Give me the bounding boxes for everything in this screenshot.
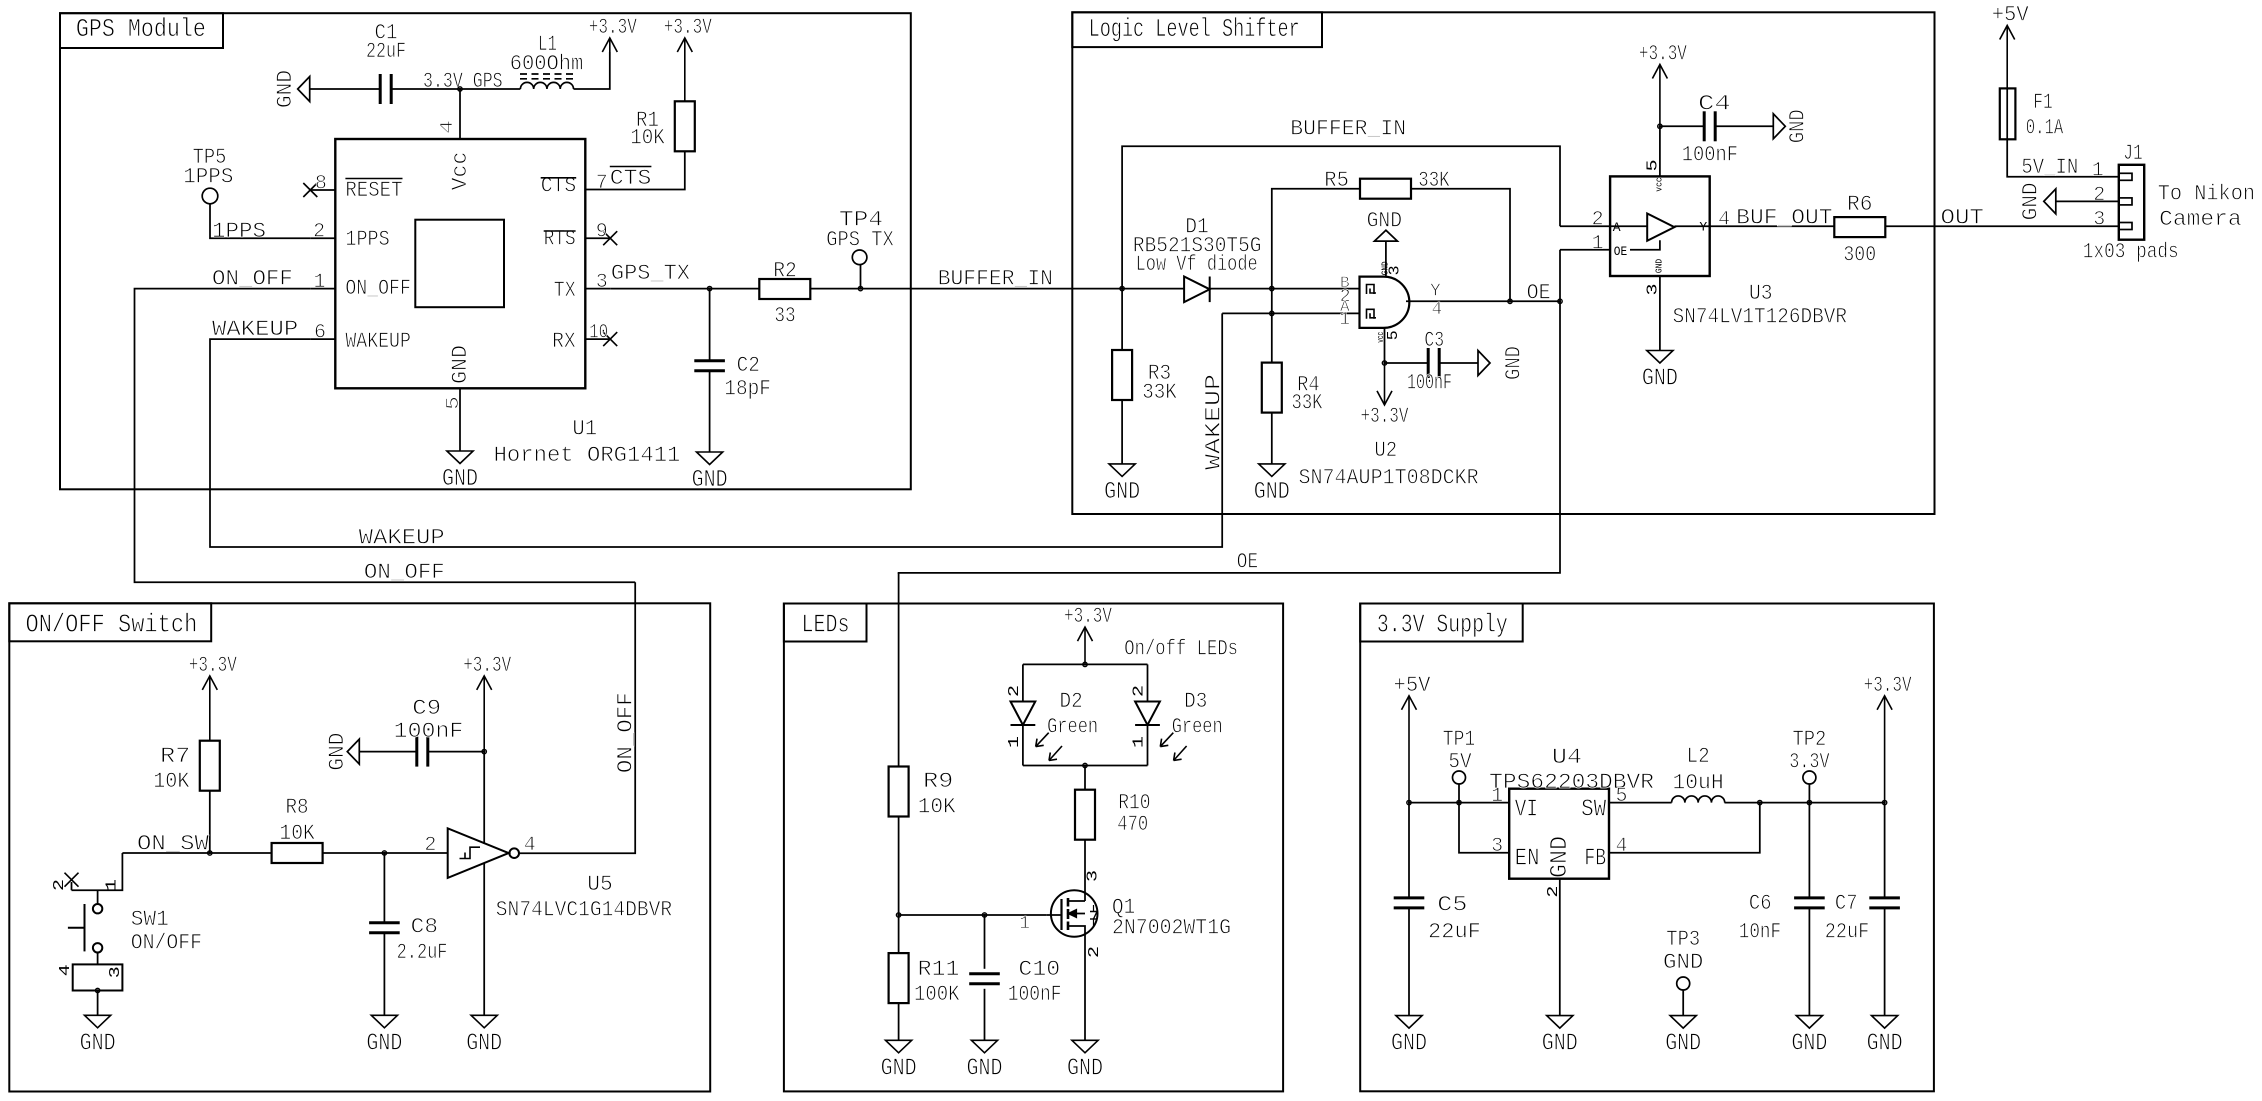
pin number 3 (J1) bbox=[2093, 209, 2105, 232]
svg-text:GND: GND bbox=[1502, 346, 1527, 380]
net label ON_OFF (pin1) bbox=[212, 267, 293, 292]
test point TP3 bbox=[1663, 927, 1703, 990]
capacitor C3 bbox=[1407, 328, 1452, 396]
pin 10 RX stub with no-connect bbox=[585, 322, 617, 347]
svg-text:R7: R7 bbox=[160, 744, 190, 769]
svg-text:600Ohm: 600Ohm bbox=[510, 52, 584, 77]
svg-text:2: 2 bbox=[51, 879, 68, 891]
U3 pin 5 VCC bbox=[1644, 126, 1661, 176]
wire ON_OFF from pin 1 bbox=[135, 289, 636, 583]
svg-text:LEDs: LEDs bbox=[802, 610, 850, 640]
wire TP4 stub bbox=[860, 265, 862, 289]
svg-text:GND: GND bbox=[967, 1055, 1003, 1082]
U2 pin label B bbox=[1340, 274, 1350, 292]
svg-text:To Nikon: To Nikon bbox=[2158, 181, 2255, 206]
wire U5 vcc bbox=[483, 752, 485, 844]
svg-text:SW1: SW1 bbox=[131, 907, 169, 932]
svg-text:GND: GND bbox=[1665, 1031, 1701, 1058]
pin 8 RESET stub with no-connect bbox=[303, 173, 335, 198]
J1 note Camera bbox=[2159, 207, 2241, 232]
ON/OFF Switch section box bbox=[9, 603, 710, 1091]
wire SW1 to ground bbox=[97, 991, 99, 1016]
wire C7 to ground bbox=[1884, 908, 1886, 1016]
U2 value SN74AUP1T08DCKR bbox=[1299, 466, 1479, 491]
U1 inner square bbox=[415, 220, 504, 308]
svg-text:F1: F1 bbox=[2033, 90, 2053, 115]
U4 value TPS62203DBVR bbox=[1489, 770, 1654, 795]
svg-text:C7: C7 bbox=[1835, 891, 1858, 916]
svg-text:WAKEUP: WAKEUP bbox=[345, 329, 411, 354]
junction C8 node bbox=[382, 851, 386, 855]
SW1 pin 1 number bbox=[103, 879, 120, 891]
svg-text:1: 1 bbox=[1006, 736, 1023, 748]
svg-text:GND: GND bbox=[1642, 366, 1678, 393]
pin number 2 (U3) bbox=[1592, 209, 1604, 232]
capacitor C9 bbox=[394, 696, 464, 767]
U3 internal Y line bbox=[1674, 225, 1709, 227]
pin 3 TX stub bbox=[585, 271, 610, 294]
IC U4 box bbox=[1509, 789, 1609, 879]
ground (C5) bbox=[1391, 1016, 1427, 1058]
ground (J1 pin 2, left) bbox=[2018, 182, 2056, 220]
wire R1 to CTS pin bbox=[586, 151, 685, 189]
svg-text:ON/OFF: ON/OFF bbox=[131, 931, 202, 956]
svg-text:BUFFER_IN: BUFFER_IN bbox=[938, 266, 1053, 291]
ON/OFF Switch title box bbox=[9, 603, 211, 641]
svg-text:C9: C9 bbox=[412, 696, 441, 721]
svg-text:5: 5 bbox=[444, 396, 464, 410]
svg-text:SN74LV1T126DBVR: SN74LV1T126DBVR bbox=[1673, 305, 1847, 330]
svg-text:1PPS: 1PPS bbox=[183, 165, 233, 190]
svg-text:33: 33 bbox=[774, 303, 795, 328]
ground (R3) bbox=[1104, 464, 1140, 506]
wire B input bbox=[1272, 288, 1360, 290]
svg-text:C5: C5 bbox=[1437, 893, 1467, 918]
wire C9 branch bbox=[429, 751, 485, 753]
svg-text:18pF: 18pF bbox=[724, 377, 771, 402]
wire C5 to ground bbox=[1408, 908, 1410, 1016]
svg-text:FB: FB bbox=[1584, 846, 1606, 873]
svg-text:GND: GND bbox=[1367, 209, 1402, 234]
svg-text:+5V: +5V bbox=[1992, 3, 2030, 28]
net label 5V_IN bbox=[2021, 155, 2078, 180]
junction C9 node bbox=[482, 749, 486, 753]
wire C1 to node 3.3V_GPS bbox=[391, 88, 460, 90]
wire C10 to ground bbox=[984, 989, 986, 1041]
J1 reference label bbox=[2123, 141, 2142, 166]
svg-text:1: 1 bbox=[103, 879, 120, 891]
svg-text:GND: GND bbox=[366, 1030, 402, 1057]
pin 2 1PPS stub bbox=[310, 221, 335, 244]
svg-text:TP2: TP2 bbox=[1792, 727, 1826, 752]
svg-text:100nF: 100nF bbox=[1407, 371, 1452, 396]
svg-text:3.3V: 3.3V bbox=[1789, 750, 1830, 775]
capacitor C7 bbox=[1825, 891, 1900, 945]
svg-text:2: 2 bbox=[1006, 685, 1023, 697]
resistor R7 bbox=[153, 741, 220, 794]
pin number 4 bbox=[438, 120, 458, 134]
IC U1 Hornet ORG1411 box bbox=[335, 139, 585, 388]
wire F1 to J1 pin1 bbox=[2007, 139, 2119, 177]
svg-text:22uF: 22uF bbox=[1428, 920, 1481, 945]
SW1 pin 2 no-connect bbox=[51, 873, 78, 891]
GPS Module section box bbox=[60, 13, 911, 489]
svg-text:Logic Level Shifter: Logic Level Shifter bbox=[1089, 14, 1300, 44]
ground (C7) bbox=[1867, 1016, 1903, 1058]
power +3.3V (supply out) bbox=[1864, 673, 1913, 803]
svg-text:GND: GND bbox=[1663, 950, 1703, 975]
svg-text:GND: GND bbox=[466, 1030, 502, 1057]
net label BUFFER_IN (top) bbox=[1290, 117, 1406, 142]
U3 pin label OE bbox=[1614, 244, 1628, 259]
wire OE into LEDs bbox=[898, 573, 900, 766]
svg-text:GND: GND bbox=[1104, 479, 1140, 506]
wire C2 drop bbox=[709, 289, 711, 361]
svg-text:GND: GND bbox=[80, 1030, 116, 1057]
wire SW1 pin1 riser bbox=[72, 853, 123, 890]
switch SW1 bbox=[68, 890, 202, 955]
svg-text:R5: R5 bbox=[1324, 168, 1349, 193]
svg-text:Y: Y bbox=[1699, 220, 1707, 235]
junction D1/R5 (B net) bbox=[1270, 286, 1274, 290]
net label ON_OFF (horizontal) bbox=[364, 560, 445, 585]
svg-text:4: 4 bbox=[1616, 835, 1628, 858]
U4 pin name SW bbox=[1581, 797, 1607, 824]
inductor L2 bbox=[1672, 744, 1725, 803]
test point TP2 bbox=[1789, 727, 1830, 784]
wire input rail bbox=[1409, 802, 1509, 804]
wire R9 to gate node bbox=[898, 817, 900, 916]
svg-text:0.1A: 0.1A bbox=[2026, 116, 2064, 141]
svg-text:10K: 10K bbox=[630, 126, 665, 151]
junction C2 node bbox=[707, 286, 711, 290]
ground (U2 pin 3, up) bbox=[1367, 209, 1402, 242]
svg-text:100nF: 100nF bbox=[394, 719, 464, 744]
wire BUFFER_IN to logic section bbox=[911, 288, 1122, 290]
U1 pin name RESET bbox=[345, 178, 402, 203]
svg-text:4: 4 bbox=[57, 964, 74, 976]
ground (C6) bbox=[1791, 1016, 1827, 1058]
wire TP1 stub bbox=[1458, 784, 1460, 803]
net label GPS_TX bbox=[611, 261, 690, 286]
svg-text:3: 3 bbox=[1387, 265, 1404, 275]
U3 reference label bbox=[1749, 281, 1773, 306]
power +3.3V (R1) bbox=[664, 15, 713, 101]
svg-text:3: 3 bbox=[107, 966, 124, 978]
net label OUT bbox=[1941, 206, 1984, 231]
ground (C8) bbox=[366, 1015, 402, 1057]
svg-text:BUFFER_IN: BUFFER_IN bbox=[1290, 117, 1406, 142]
wire C9 to ground bbox=[360, 751, 417, 753]
svg-text:2.2uF: 2.2uF bbox=[397, 940, 448, 965]
wire FB loop bbox=[1609, 803, 1760, 853]
svg-text:+5V: +5V bbox=[1394, 673, 1432, 698]
U1 pin name RX bbox=[552, 329, 576, 354]
wire SW to L2 bbox=[1609, 802, 1672, 804]
U5 pin number 2 bbox=[424, 834, 436, 857]
resistor R10 bbox=[1075, 790, 1151, 840]
svg-text:3: 3 bbox=[1491, 835, 1503, 858]
wire BUFFER_IN riser bbox=[1122, 146, 1560, 288]
wire Vcc pin 4 bbox=[459, 89, 461, 139]
capacitor C1 bbox=[366, 21, 406, 105]
pin number 4 (U4) bbox=[1616, 835, 1628, 858]
LEDs section box bbox=[784, 604, 1283, 1092]
svg-text:OE: OE bbox=[1614, 244, 1628, 259]
resistor R8 bbox=[272, 795, 323, 863]
svg-text:EN: EN bbox=[1515, 846, 1540, 873]
svg-text:GND: GND bbox=[442, 466, 478, 493]
U2 input mark A bbox=[1367, 309, 1377, 319]
ground (R4) bbox=[1254, 464, 1290, 506]
net label OE (horizontal) bbox=[1237, 550, 1258, 575]
svg-text:GND: GND bbox=[273, 70, 298, 108]
wire U3 pin2 stub bbox=[1560, 225, 1610, 227]
U4 pin name EN bbox=[1515, 846, 1540, 873]
svg-text:GND: GND bbox=[1547, 836, 1574, 878]
svg-text:GND: GND bbox=[325, 733, 350, 771]
3.3V Supply section box bbox=[1360, 604, 1934, 1092]
pin number 2 (J1) bbox=[2093, 184, 2105, 207]
svg-text:4: 4 bbox=[438, 120, 458, 134]
wire C10 drop bbox=[984, 915, 986, 969]
capacitor C8 bbox=[369, 915, 447, 966]
wire R11 drop bbox=[898, 915, 900, 953]
U2 reference label bbox=[1374, 438, 1397, 463]
SW1 lower contact stub bbox=[97, 953, 99, 965]
J1 pin pad 2 bbox=[2119, 198, 2132, 205]
svg-text:Camera: Camera bbox=[2159, 207, 2241, 232]
svg-text:GPS_TX: GPS_TX bbox=[611, 261, 690, 286]
U3 pin label GND bbox=[1655, 259, 1665, 274]
svg-text:TP1: TP1 bbox=[1443, 727, 1476, 752]
U1 pin name RTS bbox=[544, 227, 576, 252]
J1 pin pad 1 bbox=[2119, 173, 2132, 180]
svg-text:1x03 pads: 1x03 pads bbox=[2083, 240, 2179, 265]
power +3.3V (L1) bbox=[589, 15, 638, 52]
svg-text:2: 2 bbox=[424, 834, 436, 857]
capacitor C10 bbox=[969, 957, 1061, 1007]
svg-text:L2: L2 bbox=[1687, 744, 1710, 769]
svg-text:ON/OFF Switch: ON/OFF Switch bbox=[26, 610, 198, 640]
svg-text:D3: D3 bbox=[1184, 689, 1207, 714]
junction LED top bbox=[1083, 662, 1087, 666]
U2 pin 5 VCC bottom bbox=[1376, 328, 1402, 363]
svg-text:GND: GND bbox=[881, 1055, 917, 1082]
junction U2 VCC node bbox=[1382, 361, 1386, 365]
pin number 7 bbox=[596, 172, 608, 195]
junction C5 node bbox=[1407, 800, 1411, 804]
svg-text:RX: RX bbox=[552, 329, 576, 354]
pin number 4 (U3) bbox=[1718, 209, 1730, 232]
svg-text:+3.3V: +3.3V bbox=[589, 15, 638, 40]
wire gnd to C1 bbox=[310, 88, 381, 90]
ground (U1 pin 5) bbox=[442, 451, 478, 493]
net label OE (U2 output) bbox=[1527, 281, 1551, 306]
svg-text:2: 2 bbox=[1086, 946, 1103, 958]
svg-text:A: A bbox=[1613, 220, 1621, 235]
wire R7 to ON_SW node bbox=[209, 791, 211, 853]
svg-text:Y: Y bbox=[1430, 282, 1441, 302]
junction TP2/C6 bbox=[1807, 800, 1811, 804]
J1 pin pad 3 bbox=[2119, 223, 2132, 230]
U1 pin name Vcc bbox=[448, 152, 473, 191]
svg-text:OE: OE bbox=[1527, 281, 1551, 306]
diode D1 bbox=[1133, 215, 1262, 303]
svg-text:10K: 10K bbox=[153, 769, 190, 794]
svg-text:U4: U4 bbox=[1552, 745, 1582, 770]
resistor R4 bbox=[1262, 363, 1323, 416]
wire C7 drop bbox=[1884, 803, 1886, 898]
transistor Q1 bbox=[1019, 870, 1231, 958]
resistor R1 bbox=[630, 101, 695, 151]
LEDs title box bbox=[784, 604, 867, 642]
wire TX to R2 bbox=[610, 288, 759, 290]
GPS Module title box bbox=[60, 13, 223, 48]
svg-text:GND: GND bbox=[1254, 479, 1290, 506]
junction ON_SW bbox=[208, 851, 212, 855]
svg-text:SN74AUP1T08DCKR: SN74AUP1T08DCKR bbox=[1299, 466, 1479, 491]
svg-text:Low Vf diode: Low Vf diode bbox=[1136, 252, 1258, 277]
U3 buffer triangle bbox=[1647, 214, 1674, 241]
pin number 3 (U4) bbox=[1491, 835, 1503, 858]
U3 internal A line bbox=[1610, 225, 1647, 227]
junction BUFFER_IN/R3/D1 bbox=[1120, 286, 1124, 290]
svg-text:5V_IN: 5V_IN bbox=[2021, 155, 2078, 180]
svg-text:R2: R2 bbox=[773, 258, 797, 283]
wire Q1 source to ground bbox=[1084, 937, 1086, 1041]
ground (R11) bbox=[881, 1040, 917, 1082]
svg-text:3: 3 bbox=[2093, 209, 2105, 232]
U3 value SN74LV1T126DBVR bbox=[1673, 305, 1847, 330]
wire R11 to ground bbox=[898, 1003, 900, 1040]
junction SW1 bottom bbox=[95, 988, 99, 992]
IC U5 inverter bbox=[448, 828, 519, 878]
U5 pin number 4 bbox=[524, 834, 536, 857]
svg-text:GND: GND bbox=[1067, 1055, 1103, 1082]
wire D2 anode bbox=[1022, 664, 1024, 701]
svg-text:C4: C4 bbox=[1698, 92, 1731, 117]
wire R3 to ground bbox=[1121, 400, 1123, 464]
svg-text:SW: SW bbox=[1581, 797, 1607, 824]
wire C4 branch bbox=[1660, 125, 1704, 127]
ground (C10) bbox=[967, 1040, 1003, 1082]
pin number 1 (U4) bbox=[1491, 785, 1503, 808]
svg-text:100K: 100K bbox=[914, 982, 960, 1007]
U4 pin 2 GND wire bbox=[1545, 879, 1562, 1016]
power +5V (F1) bbox=[1992, 3, 2030, 89]
U2 pin number 2 bbox=[1340, 287, 1351, 307]
svg-text:100nF: 100nF bbox=[1008, 982, 1062, 1007]
svg-text:9: 9 bbox=[596, 221, 608, 244]
U2 pin number 4 bbox=[1432, 300, 1443, 320]
wire C5 drop bbox=[1408, 803, 1410, 898]
power +3.3V (U3) bbox=[1639, 42, 1688, 127]
junction R5/Y bbox=[1508, 299, 1512, 303]
U5 value SN74LVC1G14DBVR bbox=[496, 898, 672, 923]
svg-text:Vcc: Vcc bbox=[448, 152, 473, 191]
svg-text:2: 2 bbox=[1545, 886, 1562, 898]
svg-text:U1: U1 bbox=[572, 417, 597, 442]
svg-text:3: 3 bbox=[1644, 284, 1661, 296]
svg-text:+3.3V: +3.3V bbox=[189, 653, 238, 678]
svg-text:+3.3V: +3.3V bbox=[463, 653, 512, 678]
LED D3 bbox=[1130, 685, 1222, 761]
U1 value Hornet ORG1411 bbox=[494, 443, 681, 468]
svg-text:1: 1 bbox=[1339, 310, 1350, 330]
svg-text:OUT: OUT bbox=[1941, 206, 1984, 231]
power +3.3V (LEDs) bbox=[1064, 604, 1113, 664]
inductor L1 bbox=[510, 32, 584, 89]
ground (TP3) bbox=[1665, 1016, 1701, 1058]
svg-text:6: 6 bbox=[314, 322, 326, 345]
wire WAKEUP from pin 6 bbox=[210, 313, 1222, 547]
svg-text:1: 1 bbox=[1019, 914, 1030, 934]
svg-text:GND: GND bbox=[1867, 1031, 1903, 1058]
resistor R5 bbox=[1324, 168, 1450, 199]
svg-text:5V: 5V bbox=[1448, 750, 1472, 775]
wire D1 anode bbox=[1122, 288, 1184, 290]
wire U5 gnd bbox=[483, 863, 485, 1015]
svg-text:1PPS: 1PPS bbox=[345, 227, 389, 252]
wire TP5 to pin 2 bbox=[210, 203, 310, 238]
svg-text:10K: 10K bbox=[279, 821, 315, 846]
svg-text:ON_OFF: ON_OFF bbox=[345, 276, 411, 301]
svg-text:10nF: 10nF bbox=[1739, 920, 1781, 945]
power +3.3V (U5) bbox=[463, 653, 512, 752]
svg-text:5: 5 bbox=[1644, 159, 1661, 171]
wire L2 to output rail bbox=[1725, 802, 1885, 804]
junction C10 node bbox=[982, 913, 986, 917]
svg-text:C6: C6 bbox=[1749, 891, 1772, 916]
power +5V (supply) bbox=[1394, 673, 1432, 803]
resistor R3 bbox=[1112, 350, 1177, 405]
svg-text:10: 10 bbox=[589, 322, 608, 345]
wire U3 Y output bbox=[1710, 225, 1835, 227]
junction TP4 bbox=[858, 286, 862, 290]
wire ON_SW bbox=[122, 852, 271, 854]
wire TP2 stub bbox=[1808, 784, 1810, 803]
junction FB node bbox=[1758, 800, 1762, 804]
svg-text:GND: GND bbox=[1785, 109, 1810, 143]
svg-text:U3: U3 bbox=[1749, 281, 1773, 306]
U1 pin name GND bbox=[448, 345, 473, 384]
ground (U5) bbox=[466, 1015, 502, 1057]
svg-text:10K: 10K bbox=[918, 795, 957, 820]
pin 6 WAKEUP stub bbox=[310, 322, 335, 345]
wire C2 to ground bbox=[709, 371, 711, 452]
ground (C1 left) bbox=[273, 70, 310, 108]
capacitor C2 bbox=[694, 353, 771, 402]
capacitor C5 bbox=[1394, 893, 1481, 945]
svg-text:22uF: 22uF bbox=[1825, 920, 1870, 945]
svg-text:+3.3V: +3.3V bbox=[1639, 42, 1688, 67]
svg-text:J1: J1 bbox=[2123, 141, 2142, 166]
net label ON_OFF (vertical) bbox=[614, 692, 639, 773]
fuse F1 bbox=[2000, 88, 2064, 140]
svg-text:7: 7 bbox=[596, 172, 608, 195]
U1 reference label bbox=[572, 417, 597, 442]
capacitor C4 bbox=[1682, 92, 1738, 168]
resistor R6 bbox=[1834, 192, 1885, 268]
svg-text:Green: Green bbox=[1047, 715, 1098, 740]
svg-text:GPS TX: GPS TX bbox=[826, 228, 894, 253]
svg-text:1PPS: 1PPS bbox=[212, 219, 266, 244]
wire node to L1 bbox=[460, 88, 520, 90]
svg-text:3: 3 bbox=[596, 271, 608, 294]
U3 pin label Y bbox=[1699, 220, 1707, 235]
svg-text:3.3V_GPS: 3.3V_GPS bbox=[423, 69, 503, 94]
